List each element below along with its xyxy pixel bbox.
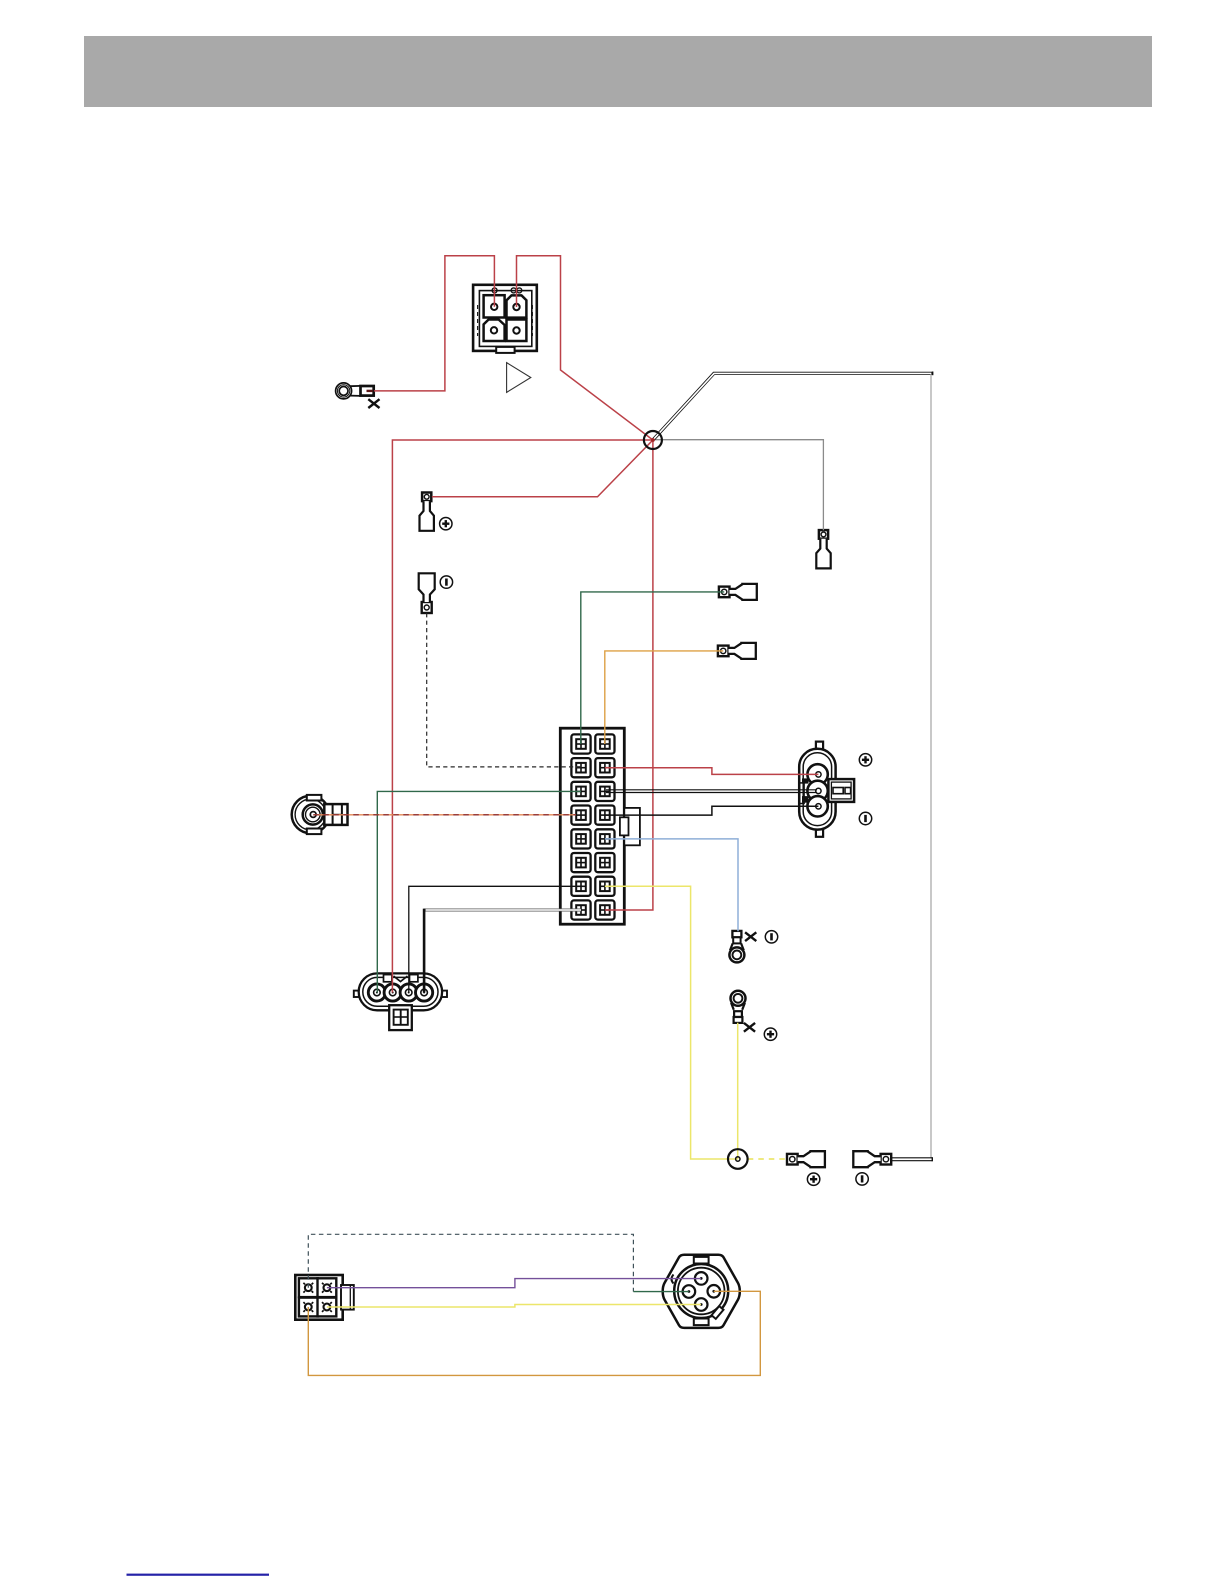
spade terminal T7 (points left): [853, 1151, 891, 1167]
wire green from T4 to C2 pin1: [581, 592, 724, 744]
bar symbol at T7: [856, 1173, 868, 1185]
ring terminal R2 (blue wire): [729, 931, 744, 963]
wire red from junction to C2 pin16: [605, 440, 653, 910]
wire green short into C5 left pin: [633, 1291, 689, 1293]
connector C2 (16-way, center): [560, 728, 640, 924]
wire blue from C2 pin10 to ring terminal R2: [605, 839, 738, 931]
wire yellow from C4 to C5 bottom pin: [327, 1305, 701, 1308]
plus symbol at T1: [440, 518, 452, 530]
twisted pair from C2 pin6 to C3 middle pin: [606, 789, 817, 791]
bulb socket C3 (right, 3-pin): [799, 742, 854, 837]
spade terminal T4 (green wire): [719, 584, 757, 600]
x mark at R2: [745, 932, 756, 941]
bulb socket C6 (left): [292, 795, 348, 834]
wire orange from T5 to C2 pin2: [605, 651, 723, 744]
plus symbol near C3: [859, 754, 871, 766]
terminal T3 (bottle, points down, gray wire): [816, 530, 830, 568]
bottom-left blue link line: [127, 1574, 270, 1576]
wire red from junction to terminal T1: [432, 440, 653, 497]
wire orange loop from C5 right pin to C4: [308, 1291, 760, 1375]
wire orange/red-dash from bulb socket C6 to C2 pin7: [313, 814, 576, 816]
wire black from C2 pin8 to C3 bottom pin: [605, 806, 819, 815]
terminal T1 (bottle, points down): [420, 493, 434, 531]
spade terminal T6: [787, 1151, 825, 1167]
wire gray vertical right side: [930, 375, 932, 1159]
twisted pair from T7 to gray vertical: [891, 1157, 932, 1159]
connector C4 (4-way, bottom left): [295, 1275, 354, 1320]
spade terminal T5 (orange wire): [718, 643, 756, 659]
wire dashed black from T2 to C2 pin3: [427, 613, 581, 767]
wire yellow from ring terminal R3 to splice node: [737, 1023, 739, 1159]
keying tab right side of C2: [624, 808, 640, 845]
wire red from C2 pin4 to C3 top pin: [605, 768, 819, 775]
splice node circle: [728, 1149, 748, 1169]
plus symbol at T6: [807, 1173, 819, 1185]
connector C1 (4-way power connector, top): [473, 285, 537, 353]
ring terminal R3 (yellow wire): [731, 991, 746, 1023]
lamp connector C7 (bottom 4-way): [354, 973, 447, 1030]
wire red from R1 to C1 pin1: [374, 256, 495, 391]
x mark at R3: [744, 1023, 755, 1032]
wire gray from junction to terminal T3: [655, 440, 823, 531]
plus symbol at R3: [764, 1028, 776, 1040]
wire green from C2 pin5 to lamp connector C7 pin1: [377, 791, 581, 992]
bar symbol at R2: [765, 931, 777, 943]
wire yellow from C2 pin14 to splice node: [605, 886, 738, 1159]
bar symbol at T2: [440, 576, 452, 588]
wire yellow dashed from splice node to T6: [748, 1158, 788, 1160]
ring terminal R1: [336, 383, 374, 399]
triangle pointer: [507, 363, 531, 393]
terminal T2 (bottle, points up): [419, 573, 435, 613]
twisted pair cable from junction to top right: [653, 373, 932, 440]
wire white from C2 pin15 to lamp connector C7 pin4: [424, 909, 581, 912]
x mark at R1: [368, 399, 379, 408]
wire black from C2 pin13 to lamp connector C7 pin3: [409, 886, 581, 992]
bar symbol near C3: [859, 812, 871, 824]
wire purple from C4 to C5 top pin: [327, 1279, 701, 1288]
round connector C5 (bottom right): [663, 1255, 740, 1328]
wire red from junction to lamp connector C7 pin2: [392, 440, 653, 993]
junction node circle: [644, 431, 662, 449]
wire red from C1 pin2 to junction: [517, 256, 653, 440]
wire dashed dark from C4 pin1 loop to C5 left pin: [308, 1234, 633, 1291]
gray header bar: [84, 36, 1152, 107]
